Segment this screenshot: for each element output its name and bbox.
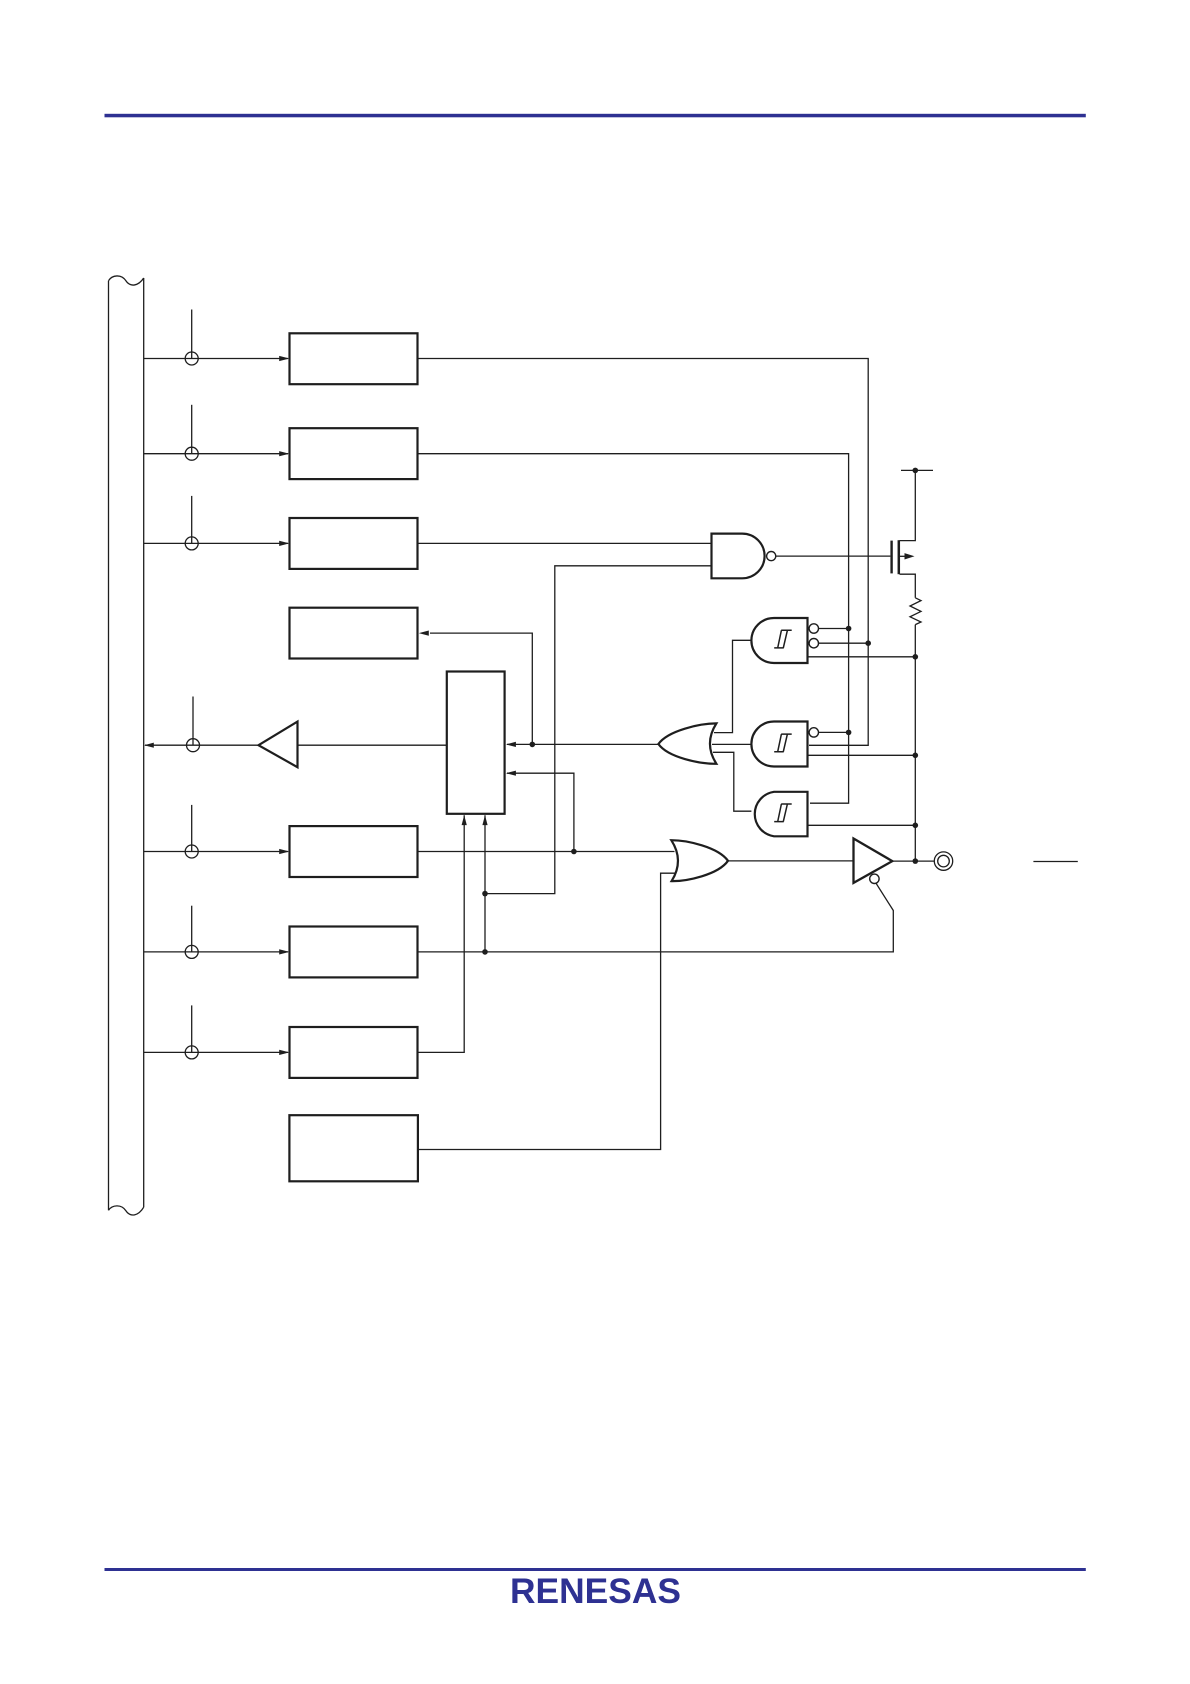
Schmitt AND gate U3 (middle, faces left)	[751, 722, 807, 767]
wire: buffer output to pad	[892, 860, 934, 862]
register box R2	[290, 428, 418, 479]
wire: U7 to control box	[298, 744, 447, 746]
junction: R7 line / branch	[482, 949, 488, 955]
register box R9	[289, 1115, 418, 1181]
stub above terminal T6	[191, 805, 193, 852]
stub above terminal T3	[191, 496, 193, 544]
header rule	[105, 114, 1086, 118]
wire: bus to register R2	[144, 453, 288, 455]
wire: R9 output to OR U6 input 2	[418, 873, 675, 1149]
pull-up resistor	[910, 598, 921, 625]
wire: U2 pin2 to net B	[819, 642, 869, 644]
input bubble U3 pin1	[809, 728, 818, 737]
arrow into R2	[279, 451, 289, 456]
junction: net A / U3 pin1	[846, 730, 852, 736]
bus terminal T3	[185, 537, 198, 550]
wire: U2 pin1 to net A	[819, 628, 849, 630]
junction: OR output / R4 branch	[530, 742, 536, 748]
register box R7	[290, 927, 418, 978]
hysteresis symbol U2	[774, 630, 792, 648]
arrow into control box input 1	[506, 742, 516, 747]
pad terminal outer circle	[934, 852, 952, 870]
wire: U4 pin2 to pad net	[808, 824, 915, 826]
wire: OR U5 output to control box	[507, 743, 658, 745]
wire: NAND input 2	[485, 566, 712, 894]
arrow into R7	[279, 949, 289, 954]
footer rule	[105, 1568, 1086, 1571]
wire: R1 output to net B	[418, 359, 869, 746]
stub above terminal T5	[192, 697, 194, 746]
Q1 source stub down to resistor	[900, 574, 916, 598]
wire: U3 pin3 to pad net	[808, 754, 916, 756]
input bubble U2 pin1	[809, 624, 818, 633]
svg-text:RENESAS: RENESAS	[510, 1572, 681, 1611]
enable bubble U8	[870, 874, 879, 883]
data bus left rail	[108, 281, 110, 1211]
pad terminal inner circle	[938, 855, 950, 867]
Schmitt AND gate U2 (top, faces left)	[751, 618, 807, 663]
wire: row6 branch to control box input 2	[507, 773, 574, 851]
register box R3	[290, 518, 418, 569]
arrow into control box bottom 1	[462, 815, 467, 825]
wire: U6 output to tri-state buffer	[728, 860, 854, 862]
register box R6	[290, 826, 418, 877]
pull-up MOSFET Q1 channel bar	[898, 540, 901, 574]
wire: pad net vertical	[914, 625, 916, 862]
stub above terminal T1	[191, 310, 193, 359]
Schmitt AND gate U4 (bottom, faces left)	[755, 792, 808, 837]
Q1 drain stub and riser to power	[900, 470, 916, 540]
input bubble U2 pin2	[809, 639, 818, 648]
wire: input buffer to bus	[145, 744, 259, 746]
wire: R3 output to NAND input 1	[418, 542, 712, 544]
wire: R8 output to control box bottom 1	[418, 815, 465, 1052]
junction: pad net / U3 pin3	[913, 753, 919, 759]
bus terminal T8	[185, 1046, 198, 1059]
data bus right rail	[143, 278, 145, 1207]
junction: R6 output / control box branch	[571, 849, 577, 855]
wire: R6 output to OR U6 input 1	[418, 851, 675, 853]
bus terminal T1	[185, 352, 198, 365]
control box B5 (input/output control)	[447, 672, 505, 814]
hysteresis symbol U4	[774, 804, 792, 822]
wire: bus to register R7	[144, 951, 288, 953]
wire: bus to register R6	[144, 851, 288, 853]
wire: bus to register R1	[144, 358, 288, 360]
arrow into control box bottom 2	[482, 815, 487, 825]
arrow into R1	[279, 356, 289, 361]
arrow into control box input 2	[506, 771, 516, 776]
stub above terminal T2	[191, 405, 193, 454]
hysteresis symbol U3	[774, 734, 792, 752]
junction: power rail / drain riser	[913, 468, 919, 474]
register box R4	[290, 608, 418, 659]
bus break top	[109, 276, 144, 285]
bus break bottom	[109, 1206, 144, 1215]
wire: bus to register R8	[144, 1051, 288, 1053]
wire: U3 pin1 to net A	[819, 731, 849, 733]
register box R8	[290, 1027, 418, 1078]
stub above terminal T8	[191, 1005, 193, 1052]
NAND output bubble	[767, 552, 776, 561]
NAND gate U1	[712, 534, 765, 579]
OR gate U6 (faces right)	[671, 840, 728, 881]
bus terminal T6	[185, 845, 198, 858]
wire: R2 output to net A	[418, 454, 849, 804]
tri-state output buffer U8	[854, 839, 893, 883]
junction: net A / U2 pin1	[846, 626, 852, 632]
wire: R7 output to tri-state enable	[418, 883, 894, 952]
junction: pad net / output	[913, 858, 919, 864]
wire: branch to R4	[430, 633, 532, 744]
arrow into R6	[279, 849, 289, 854]
wire: U3 output	[712, 743, 751, 745]
arrow into R4	[419, 631, 429, 636]
stub above terminal T7	[191, 906, 193, 952]
wire: U2 pin3 to pad net	[808, 656, 916, 658]
wire: bus to register R3	[144, 542, 288, 544]
bus terminal T5	[187, 739, 200, 752]
input buffer U7 (triangle pointing left)	[259, 722, 298, 768]
power rail	[901, 469, 933, 471]
junction: pad net / U4 pin2	[913, 823, 919, 829]
arrow into bus (row 5)	[144, 743, 154, 748]
wire: U2 output	[714, 640, 751, 732]
wire: NAND output to MOSFET gate	[776, 555, 891, 557]
Q1 body arrow line	[900, 555, 907, 557]
bus terminal T7	[185, 945, 198, 958]
OR gate U5 (faces left)	[658, 723, 716, 763]
arrow into R8	[279, 1050, 289, 1055]
bus terminal T2	[185, 447, 198, 460]
junction: net B / U2 pin2	[865, 640, 871, 646]
wire: U4 output	[713, 752, 751, 811]
pin label dash	[1033, 861, 1077, 863]
Q1 body arrowhead	[905, 553, 915, 559]
wire: R7 branch up to control box bottom	[484, 815, 486, 952]
register box R1	[290, 333, 418, 384]
arrow into R3	[279, 541, 289, 546]
junction: pad net / U2 pin3	[913, 654, 919, 660]
pull-up MOSFET Q1 gate bar	[890, 541, 892, 574]
junction: branch / NAND input 2 wire	[482, 891, 488, 897]
